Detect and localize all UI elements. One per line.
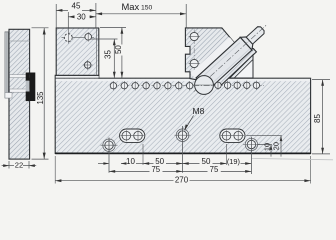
dim 22 [2,160,37,169]
svg-text:35: 35 [104,50,113,59]
side column [9,29,30,159]
screw taper [240,37,253,50]
svg-text:M8: M8 [193,106,205,116]
dim 135 [32,28,49,159]
angle block centerline [193,30,195,72]
svg-text:10: 10 [262,143,271,151]
screw tip [246,27,264,44]
slot left [120,129,145,142]
dim 20 vertical right [246,136,282,157]
clamp wedge triangle [230,55,256,81]
base hole right [243,137,260,174]
angle block hole lower [189,59,200,67]
jaw hole B [85,32,92,42]
svg-text:75: 75 [210,165,219,174]
svg-text:20: 20 [272,142,281,150]
M8 hole [175,126,191,173]
screw centerline [194,25,267,92]
svg-text:Max: Max [122,1,140,12]
screw shading lines [199,43,249,86]
svg-text:(19): (19) [227,157,240,166]
row1: 10 / 50 / 50 / (19) y=163 [98,144,251,166]
M8 label + leader [184,106,204,131]
row3: 270 y=178.2 [55,156,310,185]
dim 45 [56,2,96,28]
dim 10 vertical right [258,143,273,157]
dim 35 vertical [91,39,118,78]
body [55,75,310,153]
svg-text:30: 30 [77,12,86,21]
slot right [220,129,245,142]
svg-text:270: 270 [175,176,189,185]
hole row centerline [110,85,264,87]
base hole left [101,138,118,173]
back plate [5,32,8,98]
screw ball end [193,76,216,95]
svg-text:22: 22 [15,160,23,169]
svg-text:150: 150 [141,5,153,12]
svg-text:85: 85 [313,114,322,123]
screw halo [193,36,237,76]
svg-text:75: 75 [151,165,160,174]
svg-text:50: 50 [114,45,123,54]
svg-text:45: 45 [72,2,81,11]
notch in column lower left [5,93,12,98]
svg-text:135: 135 [36,91,45,105]
rail slot lower [10,89,30,92]
dim 50 vertical [100,28,126,79]
clamp block (black) [29,73,35,102]
rail slot upper [10,75,30,78]
dim 85 [312,80,330,154]
svg-text:10: 10 [126,157,135,166]
screw shaft [196,37,252,90]
jaw hole centerline [62,36,95,38]
hole row right group [215,81,260,90]
row2: 75 / 75 y=170.7 [109,165,251,174]
faint page rule [252,158,333,159]
hole row left group [110,81,193,90]
jaw hole A (hidden) [64,28,72,44]
jaw hole C [83,60,93,70]
angle block hole upper [189,32,200,40]
dim 30 [68,12,96,28]
dim Max 150 [96,1,186,28]
movable jaw block [56,28,99,75]
